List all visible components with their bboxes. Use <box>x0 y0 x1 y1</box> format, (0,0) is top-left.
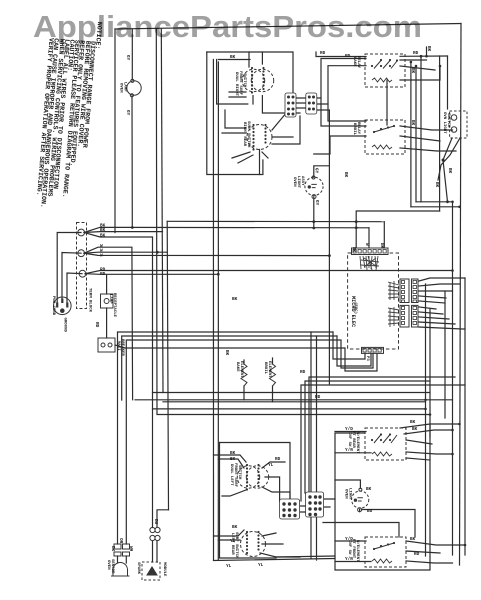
surface switch 1 dashed circles (dual) <box>242 69 264 91</box>
oven light circle <box>305 177 323 195</box>
relay dashed box D <box>365 120 405 154</box>
wire: oven lamp drop x132 upper <box>131 29 133 80</box>
wire: band y401.8 <box>163 401 426 403</box>
svg-text:RD: RD <box>414 552 420 557</box>
wire: right mid corner pair H206 <box>411 206 460 208</box>
svg-text:MODULE: MODULE <box>162 562 166 577</box>
tiny wire labels <box>94 46 452 569</box>
wire: T3 branch to receptacle drop <box>85 274 218 294</box>
relay C internals <box>372 61 397 564</box>
wire: EOC sensor line C <box>126 340 373 544</box>
svg-text:DUAL LEFT: DUAL LEFT <box>229 464 233 486</box>
wire: bm switch2 feeds <box>214 530 245 540</box>
wire: right mid corner pair H201 <box>416 202 453 555</box>
wire: bm switch1 bottom <box>222 490 246 496</box>
svg-text:W: W <box>364 243 369 246</box>
EOC connector B outer pins <box>413 307 417 310</box>
wire: bottom mid left edge <box>220 443 277 559</box>
bm switch 2 dashed circle <box>241 532 266 557</box>
svg-text:SURF SWITCH: SURF SWITCH <box>246 121 250 148</box>
svg-text:BU: BU <box>153 519 158 525</box>
svg-text:GY: GY <box>125 55 130 61</box>
relay B internals (bottom) <box>374 543 394 549</box>
wire: T2 left wire to plug <box>62 253 81 299</box>
svg-text:YL: YL <box>226 564 232 569</box>
EOC pin squares bottom <box>363 349 366 353</box>
svg-text:RD: RD <box>275 457 281 462</box>
svg-text:BK: BK <box>224 350 229 356</box>
svg-text:ELEMENT: ELEMENT <box>239 361 243 378</box>
wire: bm connectors joiners <box>299 506 307 512</box>
wire: rb relay A feeds <box>335 432 371 453</box>
wire: motor RD feed <box>323 523 399 538</box>
svg-text:OVN LIGHT: OVN LIGHT <box>442 112 446 134</box>
svg-text:BK: BK <box>412 427 418 432</box>
svg-text:BK: BK <box>100 228 106 233</box>
wire: EOC right fan block B <box>419 307 465 329</box>
zigzag element 2 <box>270 364 276 386</box>
svg-text:FRONT SURF: FRONT SURF <box>233 463 237 488</box>
svg-text:BK: BK <box>232 297 238 302</box>
wire: rb relay B right fan <box>406 541 465 563</box>
svg-text:GROUND: GROUND <box>63 318 67 333</box>
svg-text:BK: BK <box>410 68 415 74</box>
block bottom2 dots <box>308 495 311 498</box>
wire: zigzag2 stubs <box>272 358 274 402</box>
indicator lights dashed box <box>450 111 467 138</box>
wire: section inner top <box>218 59 250 61</box>
wire: EOC right fan block A <box>419 278 465 303</box>
svg-text:RD: RD <box>320 51 326 56</box>
svg-text:BK: BK <box>379 243 384 249</box>
EOC blob right A <box>388 281 399 300</box>
wire: section left edge <box>207 52 263 175</box>
wire: right bottom section frame <box>335 424 430 570</box>
svg-text:W/ELEMENT: W/ELEMENT <box>355 540 360 562</box>
wire: indicator box feed drop <box>447 56 449 109</box>
svg-text:BREAKER: BREAKER <box>120 339 124 356</box>
svg-text:BK: BK <box>447 168 452 174</box>
relay dashed box A (bottom) <box>365 428 406 460</box>
svg-text:RT REAR: RT REAR <box>351 431 355 448</box>
svg-text:RD: RD <box>94 322 99 328</box>
bm switch2 pin dots <box>246 531 248 533</box>
svg-text:BK: BK <box>100 234 106 239</box>
switch1 pin dots <box>251 67 253 69</box>
wire: indicator light cross wires <box>438 138 460 202</box>
svg-text:WH: WH <box>128 546 133 552</box>
bottom mid section box top <box>220 443 291 500</box>
bm switch1 pin dots <box>246 464 248 466</box>
svg-text:PWR CORD: PWR CORD <box>51 296 55 316</box>
svg-text:W: W <box>100 254 103 259</box>
svg-text:DUAL RIGHT: DUAL RIGHT <box>234 72 238 97</box>
wire: bm switch1 out right <box>262 462 290 501</box>
svg-text:BROIL: BROIL <box>263 362 267 375</box>
wire: relay pair verticals <box>411 62 416 207</box>
wire: relay box C left pins wrap <box>321 59 366 127</box>
lamp receptacle box <box>101 294 114 308</box>
wire: band y408.9 <box>153 408 426 410</box>
wire: long bus BK upper y221.5 <box>167 220 384 222</box>
sensor inline connectors <box>114 544 121 549</box>
EOC connector B pins <box>402 307 405 310</box>
wire: inline connector jog to buzzer <box>157 510 169 527</box>
svg-text:ASSY: ASSY <box>300 176 304 186</box>
wire: oven lamp bottom to buses <box>313 197 315 228</box>
svg-text:OVEN: OVEN <box>106 560 110 570</box>
wire: T3 left wire to plug <box>67 273 82 302</box>
wire: switch2 right pins <box>272 112 300 144</box>
wire: vertical x156 from top bus <box>156 29 430 415</box>
relay A contact dots <box>371 439 373 441</box>
svg-text:BK: BK <box>110 546 115 552</box>
wire: relay box C left pin 2 wrap <box>328 66 366 121</box>
svg-text:BK: BK <box>426 46 431 52</box>
svg-text:BU: BU <box>367 509 373 514</box>
wire: rb bottom BK pair <box>323 499 335 507</box>
svg-text:RD: RD <box>315 395 321 400</box>
relay B contact dots <box>373 548 375 550</box>
wire: rb relay B feeds <box>335 541 371 562</box>
svg-text:BK: BK <box>343 172 348 178</box>
svg-text:BK: BK <box>434 182 439 188</box>
wire: lamp line continues below bus <box>328 256 330 384</box>
surface switch section outer box <box>207 52 293 93</box>
svg-text:BK: BK <box>230 457 236 462</box>
relay D internals <box>374 126 394 132</box>
surface switch 2 dashed circle <box>247 125 272 150</box>
wire: band y392.5 <box>153 393 431 438</box>
wire: breaker out to right <box>115 345 377 371</box>
connector block bottom1 <box>280 499 300 519</box>
wire: mid horizontals from EOC risers <box>356 211 439 249</box>
wire: relay D right fan <box>400 126 456 151</box>
wire: switch1 lower wires <box>229 92 246 97</box>
svg-text:LEFT REAR: LEFT REAR <box>230 533 234 555</box>
wire: relay D left pin 3 stub <box>314 136 366 154</box>
wire: inner vertical x218 long feed <box>217 62 219 560</box>
connector block bottom2 <box>306 492 324 517</box>
wire: vertical x439.6 indicator feed <box>439 56 441 211</box>
wire: buzzer drop pair <box>153 541 158 562</box>
terminal T1 <box>78 229 85 236</box>
relay A internals (bottom) <box>374 435 397 444</box>
wire: switch1 top pins fan <box>217 52 300 113</box>
EOC pin squares top <box>353 250 417 353</box>
wire: band y399.8 <box>135 399 453 401</box>
EOC right connector B <box>400 305 409 327</box>
EOC right connector A <box>400 279 409 303</box>
svg-text:INF SW: INF SW <box>347 540 351 555</box>
wire: T3 branch upper long <box>85 271 453 274</box>
wire: right outer vertical <box>460 24 462 566</box>
wire: left feed vertical x115 <box>114 29 116 233</box>
EOC connector A outer pins <box>413 281 417 284</box>
wire: band y385 <box>301 385 465 501</box>
svg-text:RD: RD <box>413 51 419 56</box>
svg-text:MAXI: MAXI <box>116 341 120 351</box>
svg-text:RT FRONT: RT FRONT <box>351 539 355 559</box>
svg-text:BK: BK <box>230 55 236 60</box>
svg-text:BK: BK <box>366 487 372 492</box>
relay D contact dots <box>373 131 375 133</box>
wire: band y377 <box>309 377 455 493</box>
svg-text:GY: GY <box>314 200 319 206</box>
wire: T1 branch to x162 corner <box>84 231 163 234</box>
svg-text:LIGHT: LIGHT <box>348 488 352 501</box>
wire: right columns mid verticals <box>430 278 465 555</box>
bm switch 1 dashed circles (dual) <box>237 466 259 488</box>
wire: vertical x167 down from bus corner <box>167 221 168 510</box>
EOC blob right B <box>388 307 399 327</box>
wire: T2 branch corner x131.9 down <box>84 247 133 400</box>
wire: T1 branch corner to x152 <box>84 233 153 528</box>
wire: T1 left wire to plug <box>57 233 81 303</box>
svg-text:LAMP: LAMP <box>123 82 127 92</box>
maxi breaker box <box>98 338 115 352</box>
oven lamp circle <box>127 81 141 95</box>
wire: switch2 upper wires <box>222 110 246 133</box>
svg-text:SWITCH: SWITCH <box>446 113 450 128</box>
svg-text:GY: GY <box>314 168 319 174</box>
block top1 dots <box>287 96 290 99</box>
svg-text:BK: BK <box>410 537 416 542</box>
wire: oven lamp top return <box>314 166 330 256</box>
svg-text:LAMP: LAMP <box>108 294 112 304</box>
wire: zigzag1 stubs <box>243 360 245 400</box>
wire: relay C right fan <box>400 60 440 80</box>
wire: vertical x425.5 long <box>425 284 427 556</box>
wire: band y381 <box>305 381 430 493</box>
EOC dashed box <box>348 253 399 349</box>
plug prongs <box>57 299 67 308</box>
relay C contact dots <box>371 65 373 67</box>
svg-text:(EOC): (EOC) <box>353 302 358 314</box>
wire: relay vertical x387 upper <box>386 80 388 125</box>
EOC bottom pin strip <box>362 347 384 353</box>
svg-text:RIGHT REAR: RIGHT REAR <box>242 122 246 147</box>
switch2 pin dots <box>252 124 254 126</box>
wire: rb top BK pair <box>400 424 460 434</box>
wire: EOC sensor line B <box>122 336 337 400</box>
svg-text:RELAY: RELAY <box>356 56 360 69</box>
terminal T3 <box>79 270 86 277</box>
wire: long bus BK lower y227.5 <box>84 227 369 232</box>
svg-text:YL: YL <box>258 563 264 568</box>
svg-text:W/ELEMENT: W/ELEMENT <box>355 432 360 454</box>
component labels (vertical micro text) <box>51 56 450 577</box>
wire: blocks bridge wires <box>295 98 307 108</box>
svg-text:RD: RD <box>100 272 106 277</box>
wire: T2 branch to x157 <box>84 252 167 253</box>
buzzer inline connector circles <box>150 527 155 532</box>
svg-text:BAKE: BAKE <box>235 362 239 372</box>
svg-text:BK: BK <box>410 120 415 126</box>
svg-text:SWITCH: SWITCH <box>242 73 246 88</box>
junction dots <box>312 220 315 223</box>
svg-text:BROIL: BROIL <box>352 123 356 136</box>
wire: sensor pair bottom <box>118 556 127 563</box>
wire: EOC sensor line A drop <box>333 332 365 359</box>
sensor dome <box>111 563 130 576</box>
block top2 dots <box>308 96 311 99</box>
svg-text:BK: BK <box>230 451 236 456</box>
svg-text:SWITCH: SWITCH <box>237 465 241 480</box>
svg-text:OVEN: OVEN <box>292 177 296 187</box>
wire: switch2 bottom wires <box>232 150 268 175</box>
wire: T2 neutral long to lamp return <box>84 253 329 255</box>
wire: bm switch2 out <box>260 533 300 557</box>
oven light 2 <box>352 491 369 508</box>
notice text block (rotated scan note) <box>35 18 102 211</box>
wire: bottom bus y556 <box>214 332 336 561</box>
wire: BK stub vertical x426 <box>426 47 428 56</box>
wire: conv motor wires <box>335 480 415 537</box>
EOC top pin strip <box>352 248 389 255</box>
svg-text:GY: GY <box>125 110 130 116</box>
EOC connector A pins <box>402 281 405 284</box>
svg-text:OVEN: OVEN <box>344 489 348 499</box>
svg-text:P3: P3 <box>365 356 369 361</box>
wire: EOC sensor line A <box>118 332 334 544</box>
svg-text:INF SW: INF SW <box>347 432 351 447</box>
svg-text:RD: RD <box>300 370 306 375</box>
svg-text:ELEMENT: ELEMENT <box>267 361 271 378</box>
svg-text:RELAY: RELAY <box>356 122 360 135</box>
connector block top2 <box>306 93 317 114</box>
svg-text:OVEN: OVEN <box>119 83 123 93</box>
svg-text:BK: BK <box>232 525 238 530</box>
watermark <box>33 9 422 45</box>
svg-text:YL: YL <box>268 463 274 468</box>
wire: EOC sensor line B drop <box>337 336 371 366</box>
wire: bm switch1 feeds <box>214 455 247 468</box>
relay dashed box B (bottom) <box>365 537 406 567</box>
svg-text:RECEPTACLE: RECEPTACLE <box>112 293 116 318</box>
wire: oven lamp drop x132 lower to BK bus <box>131 97 133 228</box>
svg-text:TERM BLOCK: TERM BLOCK <box>88 288 92 313</box>
svg-text:SURF SWITCH: SURF SWITCH <box>234 532 238 559</box>
block bottom1 dots <box>282 502 285 505</box>
wire: receptacle to breaker <box>106 308 108 338</box>
svg-text:LIGHT: LIGHT <box>296 176 300 189</box>
relay dashed box C <box>365 54 405 87</box>
wire: inner vertical x213 long feed <box>212 60 214 561</box>
svg-text:FRONT SURF: FRONT SURF <box>238 71 242 96</box>
connector block top1 <box>285 93 296 117</box>
wire: relay top feed RD <box>316 52 448 202</box>
svg-text:OR: OR <box>118 538 123 544</box>
wire: top horizontal bus <box>115 24 461 30</box>
buzzer dashed box <box>142 562 160 580</box>
wire: vertical x161 from top bus <box>161 29 163 393</box>
wire: block right exits <box>316 98 329 166</box>
EOC wire bundle blob top <box>360 256 399 327</box>
power cord plug <box>54 297 72 315</box>
svg-text:BK: BK <box>410 420 416 425</box>
svg-text:RD: RD <box>345 54 351 59</box>
terminal T2 <box>78 250 85 257</box>
zigzag element 1 <box>241 364 247 386</box>
svg-text:BAKE: BAKE <box>352 57 356 67</box>
term block dashed outline <box>77 223 87 309</box>
svg-text:Y/R: Y/R <box>345 448 353 453</box>
svg-text:SENSOR: SENSOR <box>110 559 114 574</box>
wire: rb relay A right fan <box>406 440 453 460</box>
svg-text:BK: BK <box>351 247 356 253</box>
svg-text:SPARK: SPARK <box>136 562 140 575</box>
